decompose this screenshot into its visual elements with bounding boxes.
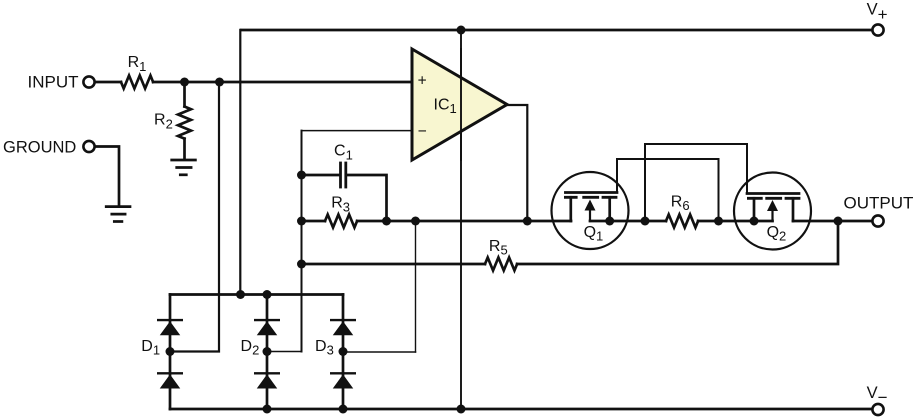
node dot diode rail / D2 xyxy=(263,290,272,299)
diode D3 upper triangle xyxy=(333,321,354,335)
wire input node down to D1 mid (x=219.5) xyxy=(170,82,219,352)
svg-text:OUTPUT: OUTPUT xyxy=(844,194,914,213)
wire R3 to IC1 output node xyxy=(357,220,527,223)
terminal V- xyxy=(872,404,883,415)
node dot R6 right / Q1 gate xyxy=(714,217,723,226)
wire output row into Q1 source xyxy=(527,220,571,223)
capacitor C1 xyxy=(339,163,342,187)
wire R5 left lead xyxy=(302,263,486,266)
diode D1 lower triangle xyxy=(160,374,181,388)
transistor Q1 drain stub xyxy=(608,197,611,221)
transistor Q2 source stub xyxy=(753,198,756,221)
transistor Q2 substrate arrow xyxy=(771,210,773,222)
wire x=461 over op-amp xyxy=(460,49,462,160)
wire GROUND terminal to ground symbol xyxy=(95,147,119,206)
wire bottom V- rail xyxy=(170,408,872,411)
wire Q2 drain to OUTPUT terminal xyxy=(793,220,872,223)
transistor Q1 gate lead crossover to R6 right xyxy=(617,159,719,221)
node dot C1 left xyxy=(297,171,306,180)
transistor Q2 channel segments xyxy=(748,197,799,200)
diode D3 lower triangle xyxy=(333,374,354,388)
wire C1 left lead xyxy=(302,174,341,177)
wire D3 mid to R3 row node (x=415.5) xyxy=(343,351,416,353)
node dot bottom rail / D3 xyxy=(339,405,348,414)
diode D2 lower triangle xyxy=(257,374,278,388)
node dot bottom rail / x461 xyxy=(457,405,466,414)
wire top V+ rail xyxy=(241,29,871,32)
diode D2 lower cathode bar xyxy=(255,372,279,374)
wire R2 bottom lead xyxy=(183,139,186,159)
wire R3 left lead xyxy=(302,220,326,223)
wire R2 top lead xyxy=(183,82,186,107)
transistor Q2 gate bar xyxy=(747,192,799,195)
resistor R6 xyxy=(666,215,698,228)
wire C1 right lead down to R3 row xyxy=(346,175,387,221)
resistor R2 xyxy=(178,107,191,139)
svg-text:+: + xyxy=(418,73,427,90)
terminal GROUND xyxy=(83,141,94,152)
transistor Q1 source stub xyxy=(569,197,572,221)
transistor Q2 circle xyxy=(734,173,811,250)
wire IC1 output xyxy=(507,105,527,221)
transistor Q1 circle xyxy=(552,172,629,249)
transistor Q2 drain stub xyxy=(792,198,795,221)
svg-text:GROUND: GROUND xyxy=(3,138,76,156)
op-amp U1 body xyxy=(412,49,507,160)
diode D3 lower cathode bar xyxy=(331,372,355,374)
svg-text:−: − xyxy=(418,123,427,140)
node dot IC1 output xyxy=(523,217,532,226)
wire R5 to output node xyxy=(517,221,838,264)
node dot input/R2 xyxy=(180,78,189,87)
node dot D1 mid xyxy=(166,347,175,356)
resistor R5 xyxy=(485,258,517,271)
diode D2 string vertical xyxy=(266,295,269,410)
terminal INPUT xyxy=(83,76,94,87)
diode D1 upper triangle xyxy=(160,321,181,335)
node dot diode rail / power drop xyxy=(236,290,245,299)
diode D1 string vertical xyxy=(169,295,172,410)
node dot D3 mid xyxy=(339,347,348,356)
node dot R6 left / Q2 gate xyxy=(641,217,650,226)
ground symbol under R2 xyxy=(172,159,196,162)
diode D2 upper cathode bar xyxy=(255,319,279,321)
transistor Q1 channel segments xyxy=(565,196,616,199)
node dot R5 left xyxy=(297,260,306,269)
diode D3 string vertical xyxy=(342,295,345,410)
node dot R3 row / D3 branch xyxy=(411,217,420,226)
terminal OUTPUT xyxy=(872,215,883,226)
terminal V+ xyxy=(872,24,883,35)
wire input row xyxy=(95,81,121,84)
wire R1 to op-amp + input xyxy=(153,81,412,84)
transistor Q1 substrate arrow xyxy=(589,209,591,221)
node dot D2 mid xyxy=(263,347,272,356)
wire R6 right node to Q2 xyxy=(698,220,772,223)
resistor R3 xyxy=(325,215,357,228)
node dot Q1 drain/substrate xyxy=(605,217,614,226)
transistor Q2 gate lead crossover to R6 left xyxy=(645,144,747,221)
node dot Q2 source/substrate xyxy=(750,217,759,226)
node dot output / R5 xyxy=(834,217,843,226)
wire Q1 drain to R6 left node xyxy=(590,220,666,223)
node dot V+ rail / x461 xyxy=(457,26,466,35)
diode D3 upper cathode bar xyxy=(331,319,355,321)
diode D2 upper triangle xyxy=(257,321,278,335)
node dot R3 left xyxy=(297,217,306,226)
wire left power drop (x=241 from V+ rail to diode rail) xyxy=(239,30,241,295)
wire V+ to V- vertical through IC1 (x=461) xyxy=(460,30,462,409)
wire op-amp inverting input to x=301.5 feedback spine xyxy=(302,130,413,132)
ground symbol main xyxy=(106,205,130,208)
node dot C1/R3 junction xyxy=(382,217,391,226)
resistor R1 xyxy=(121,76,153,89)
diode D1 upper cathode bar xyxy=(158,319,182,321)
wire diode top rail xyxy=(170,293,343,296)
diode D1 lower cathode bar xyxy=(158,372,182,374)
node dot input/D1 branch xyxy=(215,78,224,87)
svg-text:INPUT: INPUT xyxy=(28,73,79,92)
node dot bottom rail / D2 xyxy=(263,405,272,414)
transistor Q1 gate bar xyxy=(565,191,617,194)
